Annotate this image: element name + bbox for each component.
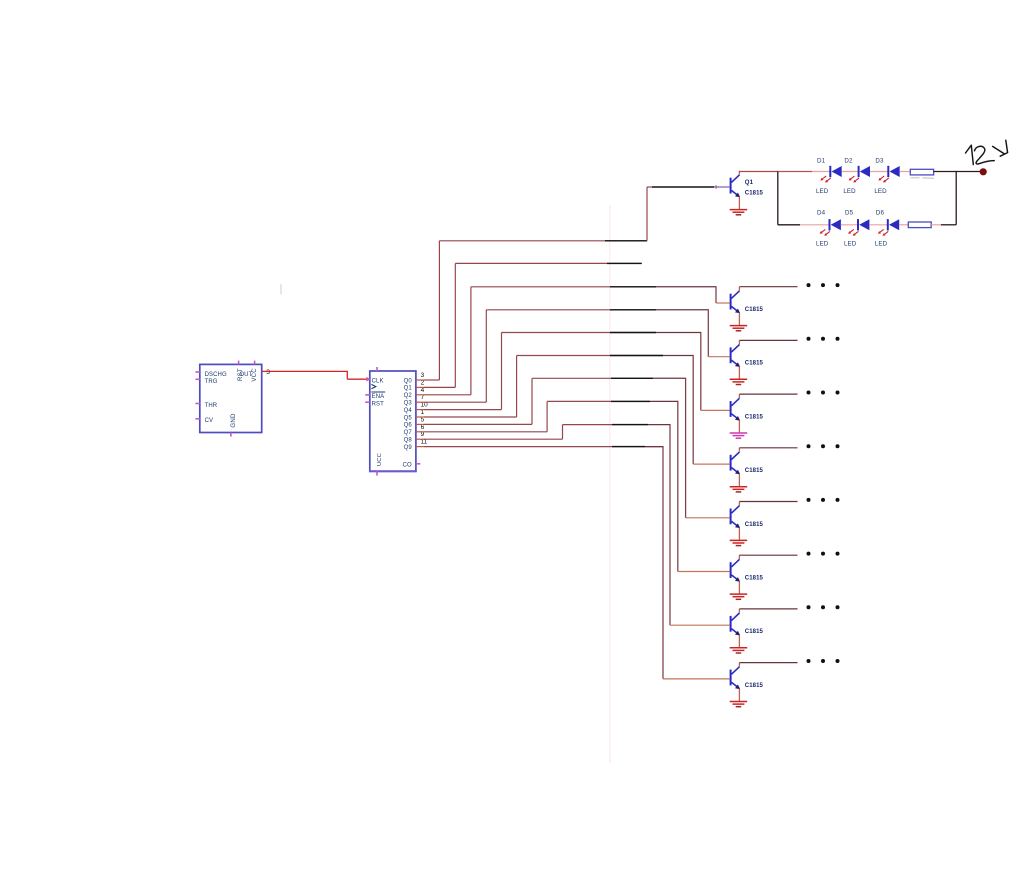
op-amp U1 555 timer body bbox=[200, 364, 262, 432]
wire Q1 upper horizontal bbox=[455, 262, 641, 264]
wire D2-D3 bbox=[870, 171, 888, 173]
wire Q7 riser up bbox=[546, 401, 548, 431]
svg-text:C1815: C1815 bbox=[745, 361, 764, 367]
wire Q7 pin stub bbox=[416, 431, 424, 433]
wire D4-D5 bbox=[841, 224, 858, 226]
555 pin stub CV bbox=[195, 418, 199, 420]
wire Q5 pin stub bbox=[416, 416, 424, 418]
svg-text:C1815: C1815 bbox=[745, 307, 764, 313]
555 pin stub TRG bbox=[195, 378, 199, 380]
svg-text:CLK: CLK bbox=[372, 379, 384, 385]
wire into T9 base bbox=[663, 678, 730, 680]
svg-text:VCC: VCC bbox=[251, 368, 258, 382]
wire Q6 black overlay segment bbox=[611, 377, 653, 379]
4017 clock edge symbol bbox=[371, 384, 375, 388]
555 pin stub THR bbox=[195, 403, 199, 405]
4017 pin stub CO bbox=[416, 463, 420, 465]
transistor T3 C1815 bbox=[730, 340, 741, 378]
svg-text:CO: CO bbox=[403, 462, 412, 468]
wire Q2 drop down to T2 bbox=[715, 286, 717, 303]
wire into T6 base bbox=[686, 517, 730, 519]
wire D5-D6 bbox=[869, 224, 887, 226]
ground for T4 bbox=[730, 433, 748, 438]
svg-text:C1815: C1815 bbox=[745, 468, 764, 474]
wire Q4 pin stub bbox=[416, 409, 424, 411]
555 pin stub RST top bbox=[238, 361, 240, 365]
faint gray mark bbox=[280, 284, 282, 295]
wire Q9 horizontal run bbox=[424, 446, 663, 448]
svg-text:C1815: C1815 bbox=[745, 683, 764, 689]
wire Q3 upper horizontal bbox=[486, 309, 656, 311]
wire Q1 black overlay segment bbox=[607, 262, 642, 264]
wire Q0 top horizontal to Q1 base bbox=[647, 186, 652, 188]
LED bracket right vertical bbox=[955, 171, 957, 225]
wire Q8 riser up bbox=[562, 425, 564, 440]
collector wire and dots T2 bbox=[739, 286, 797, 288]
wire Q7 continue to drop bbox=[650, 400, 678, 402]
svg-text:DSCHG: DSCHG bbox=[205, 372, 227, 378]
wire Q5 black overlay segment bbox=[610, 355, 663, 357]
wire Q9 continue to drop bbox=[645, 446, 663, 448]
svg-text:Q1: Q1 bbox=[404, 386, 413, 392]
transistor T7 C1815 bbox=[730, 555, 741, 593]
wire bottom branch segment a bbox=[778, 224, 800, 226]
transistor T9 C1815 bbox=[730, 663, 741, 701]
LED bracket left vertical bbox=[777, 171, 779, 225]
wire into T7 base bbox=[678, 571, 730, 573]
wire Q1 horizontal to riser bbox=[424, 386, 455, 388]
transistor T4 C1815 bbox=[730, 394, 741, 432]
wire Q2 horizontal to riser bbox=[424, 394, 471, 396]
wire Q7 upper horizontal bbox=[547, 400, 650, 402]
wire Q4 drop down to T4 bbox=[700, 332, 702, 411]
collector wire and dots T5 bbox=[739, 447, 797, 449]
svg-text:UCC: UCC bbox=[377, 453, 383, 466]
wire junction to 12V dot bbox=[956, 171, 980, 173]
counter U2 4017 body bbox=[370, 371, 416, 471]
wire R2 to junction bbox=[931, 224, 941, 226]
wire Q7 horizontal to riser bbox=[424, 431, 547, 433]
LED D1 symbol bbox=[830, 166, 841, 177]
wire Q2 upper horizontal bbox=[471, 286, 656, 288]
LED D3 arrows bbox=[878, 176, 888, 182]
wire into Q1 base bbox=[714, 186, 730, 188]
wire Q8 pin stub bbox=[416, 438, 424, 440]
wire into T5 base bbox=[693, 463, 729, 465]
ground for T7 bbox=[730, 594, 748, 599]
wire Q1 collector to LED bracket bbox=[739, 171, 777, 173]
wire Q4 black overlay segment bbox=[610, 332, 656, 334]
collector wire and dots T8 bbox=[739, 608, 797, 610]
svg-text:D4: D4 bbox=[817, 210, 826, 217]
wire Q8 continue to drop bbox=[648, 424, 670, 426]
svg-text:Q8: Q8 bbox=[404, 438, 413, 444]
svg-text:3: 3 bbox=[266, 369, 270, 376]
LED D6 symbol bbox=[888, 219, 899, 230]
ground for T5 bbox=[730, 487, 748, 492]
wire bottom branch segment b bbox=[800, 224, 830, 226]
svg-text:TRG: TRG bbox=[205, 379, 218, 385]
wire Q5 drop down to T5 bbox=[692, 355, 694, 464]
LED D4 arrows bbox=[820, 229, 830, 235]
wire Q3 pin stub bbox=[416, 401, 424, 403]
svg-text:LED: LED bbox=[874, 188, 887, 195]
svg-text:C1815: C1815 bbox=[745, 522, 764, 528]
wire into T3 base bbox=[708, 356, 729, 358]
wire step down bbox=[346, 371, 348, 379]
svg-text:D1: D1 bbox=[817, 157, 826, 164]
svg-text:Q9: Q9 bbox=[404, 445, 413, 451]
transistor T5 C1815 bbox=[730, 448, 741, 486]
wire into T2 base bbox=[716, 302, 730, 304]
wire Q0 riser up bbox=[438, 241, 440, 380]
transistor T8 C1815 bbox=[730, 609, 741, 647]
wire D1-D2 bbox=[842, 171, 859, 173]
wire Q3 continue to drop bbox=[656, 309, 708, 311]
wire Q2 continue to drop bbox=[656, 286, 716, 288]
svg-text:Q0: Q0 bbox=[404, 378, 413, 384]
wire Q8 upper horizontal bbox=[563, 424, 649, 426]
LED D5 arrows bbox=[848, 229, 858, 235]
wire Q6 horizontal to riser bbox=[424, 423, 532, 425]
4017 pin stub RST bbox=[365, 401, 370, 403]
wire Q4 riser up bbox=[501, 333, 503, 410]
4017 bottom edge accent bbox=[369, 470, 417, 472]
LED D5 symbol bbox=[858, 219, 869, 230]
wire D6-R2 bbox=[899, 224, 908, 226]
svg-text:Q5: Q5 bbox=[404, 415, 413, 421]
svg-text:Q4: Q4 bbox=[404, 408, 413, 414]
svg-text:D3: D3 bbox=[875, 157, 884, 164]
wire 555 OUT to CLK horizontal bbox=[262, 370, 348, 372]
wire Q6 pin stub bbox=[416, 423, 424, 425]
wire Q4 horizontal to riser bbox=[424, 409, 502, 411]
resistor R1 bbox=[910, 169, 933, 175]
wire Q3 riser up bbox=[485, 310, 487, 402]
svg-text:LED: LED bbox=[843, 188, 856, 195]
wire Q6 continue to drop bbox=[653, 377, 686, 379]
wire Q5 riser up bbox=[516, 356, 518, 418]
wire top branch segment b bbox=[812, 171, 830, 173]
wire Q1 riser up bbox=[454, 263, 456, 387]
wire into T8 base bbox=[670, 624, 730, 626]
wire Q9 drop down to T9 bbox=[662, 446, 664, 679]
ground for T3 bbox=[730, 379, 748, 384]
svg-text:THR: THR bbox=[205, 403, 218, 409]
wire R1 to junction bbox=[934, 171, 957, 173]
wire Q7 drop down to T7 bbox=[677, 401, 679, 572]
wire Q7 black overlay segment bbox=[611, 400, 650, 402]
wire Q0 black overlay top bbox=[652, 186, 714, 188]
12V power dot bbox=[980, 168, 987, 175]
wire Q0 continue to riser2 bbox=[646, 187, 648, 241]
555 pin stub GND bottom bbox=[230, 433, 232, 437]
wire Q2 black overlay segment bbox=[610, 286, 656, 288]
faint vertical guide line bbox=[609, 205, 611, 763]
svg-text:C1815: C1815 bbox=[745, 629, 764, 635]
svg-text:C1815: C1815 bbox=[745, 576, 764, 582]
svg-text:3: 3 bbox=[421, 372, 425, 379]
ground for Q1 bbox=[730, 210, 748, 215]
wire D3-R1 bbox=[900, 171, 911, 173]
LED D1 arrows bbox=[820, 176, 830, 182]
555 pin stub DSCHG bbox=[195, 371, 199, 373]
svg-text:ENA: ENA bbox=[372, 394, 385, 400]
wire Q3 black overlay segment bbox=[610, 309, 656, 311]
wire Q2 pin stub bbox=[416, 394, 424, 396]
transistor T6 C1815 bbox=[730, 502, 741, 540]
collector wire and dots T9 bbox=[739, 662, 797, 664]
svg-text:CV: CV bbox=[205, 418, 214, 424]
wire Q5 horizontal to riser bbox=[424, 416, 517, 418]
wire Q6 upper horizontal bbox=[532, 377, 653, 379]
wire Q9 black overlay segment bbox=[612, 446, 645, 448]
ground for T2 bbox=[730, 326, 748, 331]
svg-text:D2: D2 bbox=[844, 157, 853, 164]
resistor R2 bbox=[908, 222, 931, 228]
collector wire and dots T6 bbox=[739, 501, 797, 503]
LED D2 arrows bbox=[849, 176, 859, 182]
wire Q0 upper horizontal bbox=[439, 240, 647, 242]
ground for T9 bbox=[730, 702, 748, 707]
transistor Q1 C1815 bbox=[730, 171, 741, 209]
wire Q5 upper horizontal bbox=[517, 355, 663, 357]
svg-text:LED: LED bbox=[816, 241, 829, 248]
svg-text:D5: D5 bbox=[845, 210, 854, 217]
svg-text:LED: LED bbox=[844, 241, 857, 248]
svg-text:Q1: Q1 bbox=[745, 180, 754, 186]
wire Q3 horizontal to riser bbox=[424, 401, 486, 403]
collector wire and dots T4 bbox=[739, 393, 797, 395]
svg-text:D6: D6 bbox=[876, 210, 885, 217]
svg-text:Q7: Q7 bbox=[404, 430, 413, 436]
wire Q0 horizontal to riser bbox=[424, 379, 439, 381]
faint R1 value marks bbox=[911, 177, 920, 179]
svg-text:LED: LED bbox=[875, 241, 888, 248]
wire Q3 drop down to T3 bbox=[707, 309, 709, 357]
wire Q1 pin stub bbox=[416, 386, 424, 388]
svg-text:Q3: Q3 bbox=[404, 401, 413, 407]
handwritten 12 bbox=[966, 145, 974, 164]
wire Q6 drop down to T6 bbox=[685, 378, 687, 518]
red junction tick bbox=[715, 185, 717, 188]
4017 pin stub top bbox=[376, 367, 378, 371]
svg-text:RST: RST bbox=[372, 402, 385, 408]
4017 pin stub ENA bbox=[365, 394, 370, 396]
svg-text:LED: LED bbox=[816, 188, 829, 195]
collector wire and dots T7 bbox=[739, 554, 797, 556]
LED D6 arrows bbox=[878, 229, 888, 235]
wire top branch segment a bbox=[778, 171, 812, 173]
transistor T2 C1815 bbox=[730, 287, 741, 325]
wire Q0 black overlay segment bbox=[605, 240, 647, 242]
svg-text:Q2: Q2 bbox=[404, 393, 413, 399]
wire Q9 pin stub bbox=[416, 446, 424, 448]
ground for T6 bbox=[730, 540, 748, 545]
wire into CLK bbox=[347, 378, 367, 380]
wire Q5 continue to drop bbox=[663, 355, 693, 357]
wire Q8 drop down to T8 bbox=[669, 424, 671, 625]
collector wire and dots T3 bbox=[739, 339, 797, 341]
svg-text:Q6: Q6 bbox=[404, 423, 413, 429]
wire Q0 pin stub bbox=[416, 379, 424, 381]
LED D4 symbol bbox=[830, 219, 841, 230]
wire Q6 riser up bbox=[531, 378, 533, 424]
LED D3 symbol bbox=[888, 166, 899, 177]
4017 pin stub bottom bbox=[376, 471, 378, 475]
LED D2 symbol bbox=[859, 166, 870, 177]
handwritten V checkmark bbox=[993, 146, 1004, 153]
wire into T4 base bbox=[701, 409, 730, 411]
svg-text:C1815: C1815 bbox=[745, 414, 764, 420]
wire Q4 continue to drop bbox=[656, 332, 701, 334]
svg-text:GND: GND bbox=[230, 413, 237, 428]
555 pin stub VCC top bbox=[254, 361, 256, 365]
wire Q8 horizontal to riser bbox=[424, 438, 563, 440]
wire Q2 riser up bbox=[470, 287, 472, 395]
ground for T8 bbox=[730, 648, 748, 653]
4017 CLK pin arrow bbox=[366, 377, 370, 382]
svg-text:RST: RST bbox=[237, 368, 244, 381]
svg-text:C1815: C1815 bbox=[745, 191, 764, 197]
wire Q4 upper horizontal bbox=[502, 332, 657, 334]
wire Q8 black overlay segment bbox=[612, 424, 648, 426]
